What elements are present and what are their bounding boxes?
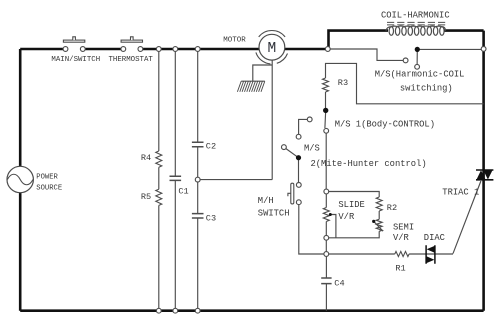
svg-text:TRIAC 1: TRIAC 1 bbox=[442, 188, 479, 198]
svg-text:V/R: V/R bbox=[393, 233, 410, 243]
svg-text:R4: R4 bbox=[141, 153, 151, 163]
svg-text:V/R: V/R bbox=[338, 212, 355, 222]
svg-text:SWITCH: SWITCH bbox=[258, 208, 290, 218]
svg-text:M: M bbox=[268, 41, 277, 57]
svg-text:SOURCE: SOURCE bbox=[36, 185, 62, 193]
svg-text:C2: C2 bbox=[206, 141, 216, 151]
svg-text:R3: R3 bbox=[338, 78, 348, 88]
svg-text:POWER: POWER bbox=[36, 174, 58, 182]
svg-text:M/H: M/H bbox=[258, 196, 274, 206]
svg-text:SLIDE: SLIDE bbox=[338, 200, 364, 210]
svg-text:C4: C4 bbox=[334, 279, 344, 289]
svg-text:R2: R2 bbox=[387, 203, 397, 213]
svg-text:2(Mite-Hunter control): 2(Mite-Hunter control) bbox=[311, 159, 427, 169]
svg-text:switching): switching) bbox=[400, 84, 453, 94]
svg-text:MAIN/SWITCH: MAIN/SWITCH bbox=[51, 56, 100, 64]
svg-text:R1: R1 bbox=[395, 264, 405, 274]
svg-text:C1: C1 bbox=[178, 186, 188, 196]
svg-text:M/S(Harmonic-COIL: M/S(Harmonic-COIL bbox=[375, 70, 465, 80]
svg-text:SEMI: SEMI bbox=[393, 222, 414, 232]
svg-text:M/S 1(Body-CONTROL): M/S 1(Body-CONTROL) bbox=[335, 119, 435, 129]
svg-text:COIL-HARMONIC: COIL-HARMONIC bbox=[381, 11, 450, 21]
svg-text:C3: C3 bbox=[206, 213, 216, 223]
svg-text:DIAC: DIAC bbox=[424, 233, 445, 243]
svg-text:THERMOSTAT: THERMOSTAT bbox=[109, 56, 154, 64]
svg-text:R5: R5 bbox=[141, 192, 151, 202]
svg-text:M/S: M/S bbox=[304, 144, 320, 154]
svg-text:MOTOR: MOTOR bbox=[223, 37, 246, 45]
